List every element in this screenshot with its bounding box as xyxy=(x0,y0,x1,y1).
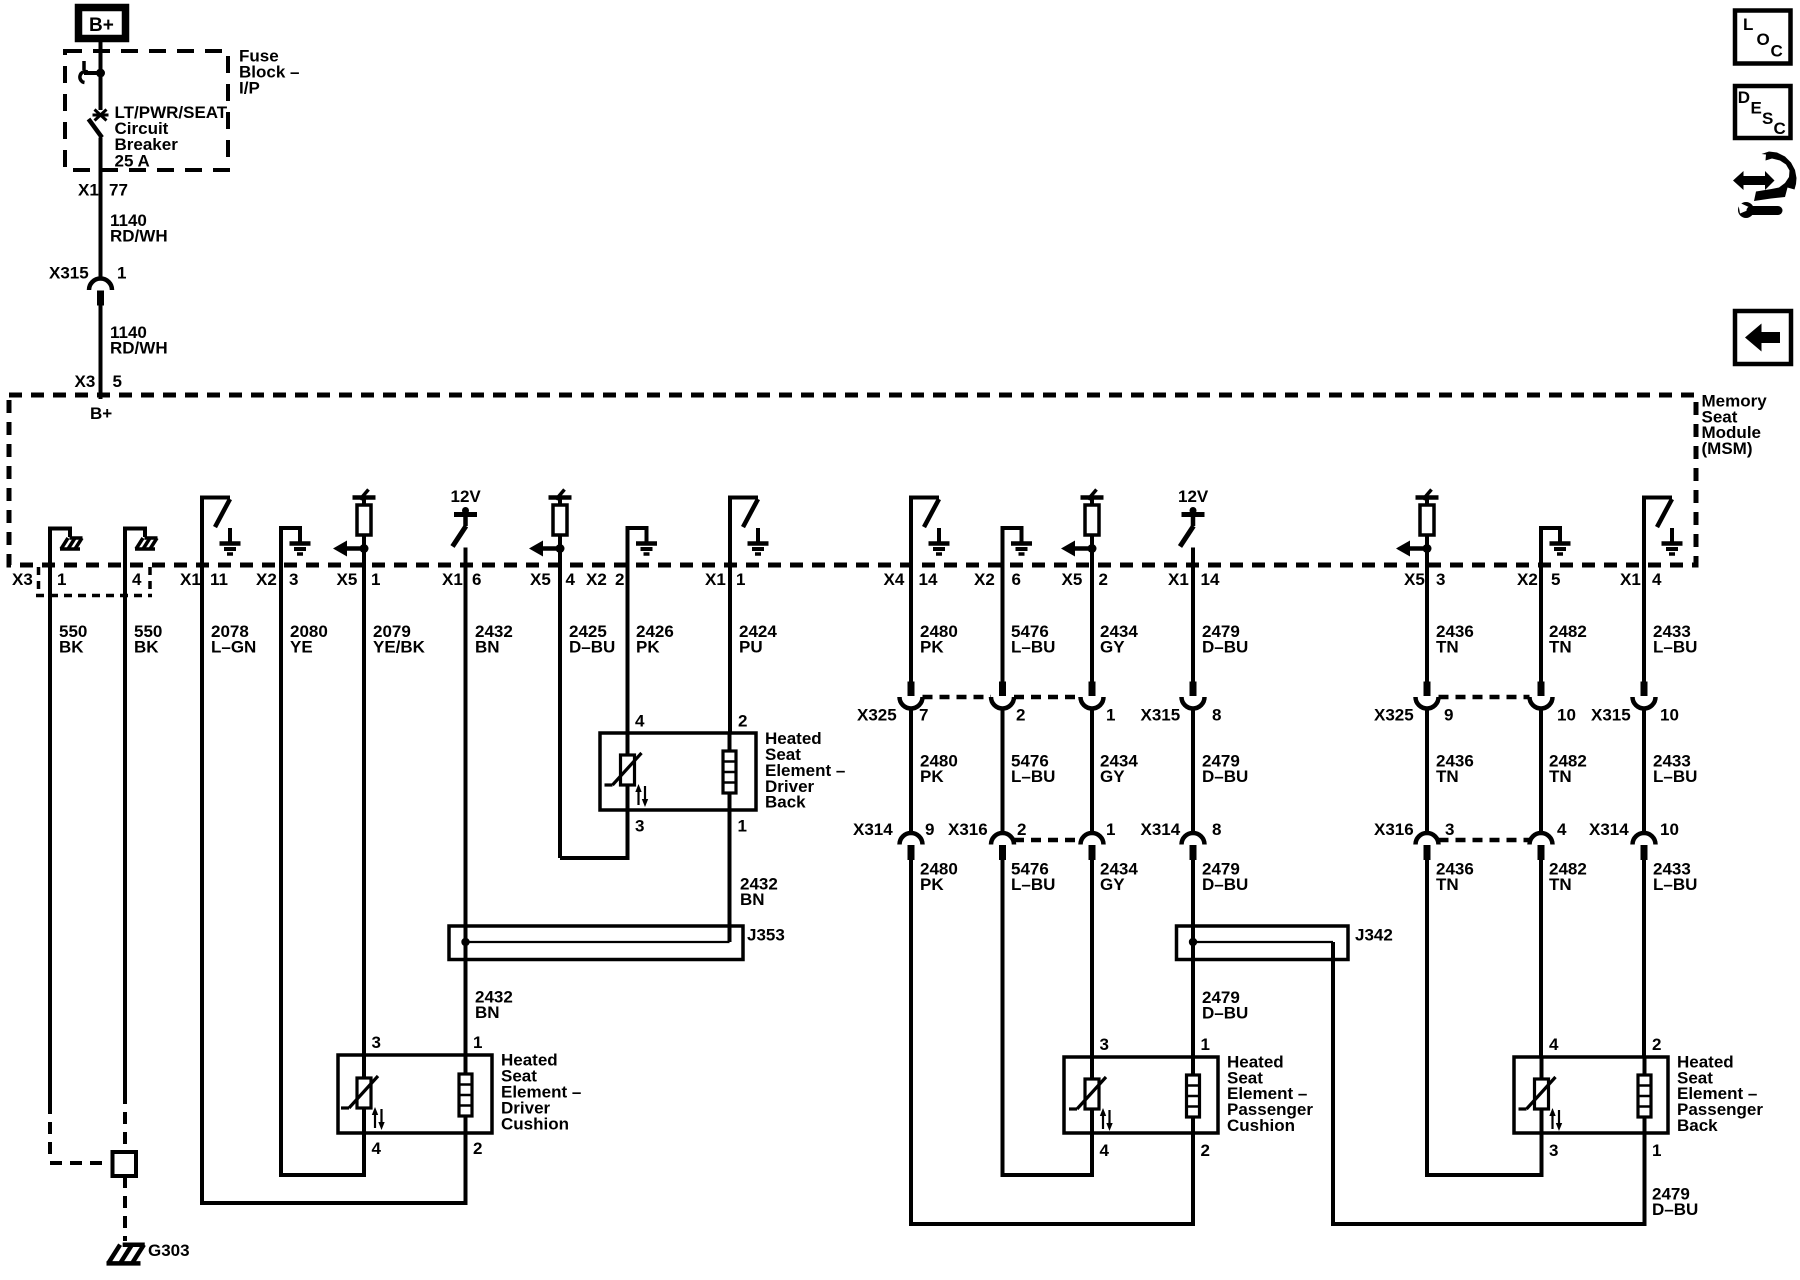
MSM internal switch to ground (X1 pin 1) xyxy=(728,498,769,568)
wire 550 BK (X3-1) xyxy=(50,565,110,1163)
svg-text:X314: X314 xyxy=(853,820,893,839)
svg-text:3: 3 xyxy=(289,570,298,589)
wire 2078 L-GN (X1-11) xyxy=(202,565,466,1203)
inline connector X315 pin 1 xyxy=(49,264,126,306)
svg-text:C: C xyxy=(1774,119,1786,138)
svg-text:X2: X2 xyxy=(586,570,607,589)
svg-text:X2: X2 xyxy=(1517,570,1538,589)
svg-text:6: 6 xyxy=(472,570,481,589)
svg-text:L–BU: L–BU xyxy=(1653,875,1697,894)
svg-text:X316: X316 xyxy=(948,820,988,839)
svg-text:J353: J353 xyxy=(747,925,785,944)
svg-text:L–GN: L–GN xyxy=(211,638,256,657)
wire 1140 RD/WH (lower) xyxy=(101,305,168,399)
svg-text:10: 10 xyxy=(1660,705,1679,724)
svg-text:D–BU: D–BU xyxy=(569,638,615,657)
svg-text:2: 2 xyxy=(1652,1035,1661,1054)
fuse block I/P dashed box xyxy=(65,46,299,170)
MSM internal switch to ground (X1 pin 4) xyxy=(1642,498,1683,568)
svg-text:L–BU: L–BU xyxy=(1011,638,1055,657)
svg-text:D: D xyxy=(1738,88,1750,107)
svg-text:3: 3 xyxy=(372,1033,381,1052)
wire 2482 TN (X2-5) upper xyxy=(1541,565,1587,683)
wire 2480 PK (X4-14) upper xyxy=(911,565,958,683)
wire 2480 PK lower xyxy=(911,859,1193,1224)
wire 2424 PU (X1-1) xyxy=(730,565,777,733)
MSM internal 12V switch (X1 pin 14) xyxy=(1178,487,1209,567)
svg-text:X2: X2 xyxy=(974,570,995,589)
svg-text:L–BU: L–BU xyxy=(1653,767,1697,786)
svg-text:X1: X1 xyxy=(78,181,99,200)
svg-text:3: 3 xyxy=(1436,570,1445,589)
inline connector X316 pin 1 xyxy=(1081,820,1116,860)
pin X3 5 labels xyxy=(75,372,122,391)
connector body dash X316 b xyxy=(1439,838,1530,843)
LOC icon xyxy=(1735,11,1791,64)
MSM internal switch to ground (X1 pin 11) xyxy=(200,498,241,568)
wire 2479 D-BU splice to passenger cushion xyxy=(1193,960,1248,1058)
svg-text:5: 5 xyxy=(113,372,122,391)
svg-text:10: 10 xyxy=(1660,820,1679,839)
svg-text:Cushion: Cushion xyxy=(501,1114,569,1133)
wire 5476 L-BU lower xyxy=(1003,859,1093,1175)
MSM internal ground (X2 pin 5) xyxy=(1541,528,1571,567)
wire driver cushion pin 4 stub xyxy=(362,1133,366,1177)
wire 2432 BN splice to driver back xyxy=(730,810,778,926)
svg-text:4: 4 xyxy=(1100,1141,1110,1160)
inline connector X316 pin 2 xyxy=(948,820,1026,860)
svg-text:PK: PK xyxy=(920,638,944,657)
heated seat element passenger cushion box xyxy=(1064,1052,1313,1135)
inline connector X325 pin 1 xyxy=(1081,682,1116,725)
svg-text:X1: X1 xyxy=(1168,570,1189,589)
svg-text:2: 2 xyxy=(615,570,624,589)
wire 2479 D-BU mid xyxy=(1193,709,1248,835)
inline connector X316 pin 4 xyxy=(1530,820,1568,860)
wire passenger cushion pin 2 stub xyxy=(1191,1133,1195,1226)
driver back pin labels xyxy=(635,711,747,835)
svg-text:(MSM): (MSM) xyxy=(1702,439,1753,458)
wire 2433 L-BU lower xyxy=(1644,859,1697,1057)
wire 2436 TN mid xyxy=(1427,709,1474,835)
svg-text:X5: X5 xyxy=(530,570,551,589)
wire 550 BK (X3-4) xyxy=(125,565,162,1152)
MSM internal switch to ground (X4 pin 14) xyxy=(909,498,950,568)
inline connector X315 pin 8 xyxy=(1141,682,1222,725)
svg-text:2: 2 xyxy=(1099,570,1108,589)
svg-text:77: 77 xyxy=(109,181,128,200)
svg-text:TN: TN xyxy=(1549,875,1572,894)
svg-text:S: S xyxy=(1762,109,1773,128)
svg-text:X5: X5 xyxy=(337,570,358,589)
connector body dash X325 b xyxy=(1014,695,1081,700)
battery terminal B+ xyxy=(79,8,126,39)
inline connector X325 pin 2 xyxy=(991,682,1025,725)
wire 2432 BN splice to driver cushion xyxy=(466,960,513,1056)
svg-text:D–BU: D–BU xyxy=(1202,767,1248,786)
svg-text:L–BU: L–BU xyxy=(1011,875,1055,894)
MSM pin labels xyxy=(12,570,1662,589)
svg-text:B+: B+ xyxy=(89,15,114,36)
label Memory Seat Module (MSM) xyxy=(1702,391,1768,458)
splice box on 550 BK xyxy=(113,1152,137,1176)
svg-text:TN: TN xyxy=(1436,875,1459,894)
svg-text:4: 4 xyxy=(566,570,576,589)
splice pack J353 xyxy=(449,925,785,959)
svg-text:BN: BN xyxy=(475,638,500,657)
svg-text:X3: X3 xyxy=(12,570,33,589)
svg-text:YE: YE xyxy=(290,638,313,657)
svg-text:TN: TN xyxy=(1549,767,1572,786)
pin X1 77 labels xyxy=(78,181,128,200)
MSM internal sensor pull-up (X5 pin 3) xyxy=(1396,490,1439,568)
wire 2436 TN lower xyxy=(1427,859,1542,1175)
svg-text:G303: G303 xyxy=(148,1241,190,1260)
passenger back pin labels xyxy=(1549,1035,1661,1160)
inline connector X314 pin 9 xyxy=(853,820,934,860)
svg-text:1: 1 xyxy=(57,570,66,589)
MSM internal ground (X2 pin 6) xyxy=(1003,528,1033,567)
wire 2434 GY lower xyxy=(1092,859,1138,1057)
svg-text:X1: X1 xyxy=(180,570,201,589)
svg-text:8: 8 xyxy=(1212,820,1221,839)
heater element (passenger cushion) xyxy=(1187,1057,1200,1133)
svg-text:J342: J342 xyxy=(1355,925,1393,944)
inline connector X316 pin 3 xyxy=(1374,820,1454,860)
svg-text:4: 4 xyxy=(1652,570,1662,589)
ground G303 xyxy=(107,1241,190,1263)
svg-text:2: 2 xyxy=(1017,820,1026,839)
svg-text:3: 3 xyxy=(1100,1035,1109,1054)
svg-text:X4: X4 xyxy=(884,570,905,589)
svg-text:4: 4 xyxy=(1549,1035,1559,1054)
wire passenger cushion pin 4 stub xyxy=(1090,1133,1094,1177)
svg-text:2: 2 xyxy=(738,711,747,730)
MSM internal sensor pull-up (X5 pin 1) xyxy=(333,490,376,568)
svg-text:O: O xyxy=(1757,30,1770,49)
svg-text:X1: X1 xyxy=(1620,570,1641,589)
svg-text:12V: 12V xyxy=(451,487,482,506)
svg-text:2: 2 xyxy=(1016,705,1025,724)
svg-text:Cushion: Cushion xyxy=(1227,1116,1295,1135)
svg-text:I/P: I/P xyxy=(239,78,260,97)
svg-text:5: 5 xyxy=(1551,570,1560,589)
svg-text:D–BU: D–BU xyxy=(1202,875,1248,894)
wire 2482 TN mid xyxy=(1541,709,1587,835)
wire 1140 RD/WH (upper) xyxy=(101,138,168,281)
svg-text:9: 9 xyxy=(925,820,934,839)
svg-text:E: E xyxy=(1751,99,1762,118)
heater element (passenger back) xyxy=(1638,1057,1651,1133)
svg-text:TN: TN xyxy=(1436,638,1459,657)
node B+ inside MSM xyxy=(90,404,112,423)
svg-text:1: 1 xyxy=(1106,705,1115,724)
inline connector X315 pin 10 xyxy=(1591,682,1679,725)
thermistor (passenger back) xyxy=(1519,1057,1563,1133)
svg-text:4: 4 xyxy=(372,1139,382,1158)
svg-text:BN: BN xyxy=(475,1003,500,1022)
svg-text:X315: X315 xyxy=(49,264,89,283)
svg-text:X5: X5 xyxy=(1062,570,1083,589)
svg-text:X1: X1 xyxy=(705,570,726,589)
inline connector X314 pin 8 xyxy=(1141,820,1222,860)
svg-text:BK: BK xyxy=(134,638,159,657)
svg-text:GY: GY xyxy=(1100,875,1125,894)
svg-text:14: 14 xyxy=(919,570,938,589)
svg-text:YE/BK: YE/BK xyxy=(373,638,426,657)
wire 2479 D-BU splice to passenger back xyxy=(1333,960,1698,1225)
svg-text:12V: 12V xyxy=(1178,487,1209,506)
MSM internal sensor pull-up (X5 pin 4) xyxy=(529,490,572,568)
X3 connector dashed pocket xyxy=(36,567,152,596)
heater element (driver back) xyxy=(723,733,736,810)
svg-text:PU: PU xyxy=(739,638,763,657)
wire from B+ into fuse block xyxy=(99,39,103,73)
svg-text:11: 11 xyxy=(210,570,228,589)
wire 2426 PK (X2-2) xyxy=(628,565,674,733)
inline connector X325 pin 7 xyxy=(857,682,928,725)
svg-text:D–BU: D–BU xyxy=(1202,1004,1248,1023)
svg-text:1: 1 xyxy=(1652,1141,1661,1160)
inline connector X325 pin 9 xyxy=(1374,682,1453,725)
svg-text:3: 3 xyxy=(635,816,644,835)
svg-text:L–BU: L–BU xyxy=(1653,638,1697,657)
svg-text:4: 4 xyxy=(635,711,645,730)
svg-text:GY: GY xyxy=(1100,767,1125,786)
MSM internal ground (X3 pin 1) xyxy=(50,529,83,568)
svg-text:6: 6 xyxy=(1012,570,1021,589)
thermistor (passenger cushion) xyxy=(1069,1057,1113,1133)
thermistor (driver back) xyxy=(605,733,649,810)
svg-text:D–BU: D–BU xyxy=(1652,1200,1698,1219)
inline connector X325 pin 10 xyxy=(1530,682,1576,725)
passenger cushion pin labels xyxy=(1100,1035,1210,1160)
wire 2432 BN (X1-6) xyxy=(466,565,513,926)
svg-text:Back: Back xyxy=(765,793,806,812)
svg-text:1: 1 xyxy=(371,570,380,589)
svg-text:2: 2 xyxy=(473,1139,482,1158)
diagram navigation icon xyxy=(1733,152,1797,219)
svg-text:1: 1 xyxy=(473,1033,482,1052)
wire 2433 L-BU mid xyxy=(1644,709,1697,835)
wire 2482 TN lower xyxy=(1541,859,1587,1057)
driver cushion pin labels xyxy=(372,1033,483,1158)
svg-text:BK: BK xyxy=(59,638,84,657)
wire 2433 L-BU (X1-4) upper xyxy=(1644,565,1697,683)
MSM internal ground (X2 pin 2) xyxy=(628,528,658,567)
wire driver cushion pin 2 stub xyxy=(464,1133,468,1205)
svg-text:X325: X325 xyxy=(1374,705,1414,724)
wire 2436 TN (X5-3) upper xyxy=(1427,565,1474,683)
connector body dash X325 c xyxy=(1439,695,1530,700)
svg-text:1: 1 xyxy=(738,816,747,835)
svg-text:BN: BN xyxy=(740,890,765,909)
svg-text:D–BU: D–BU xyxy=(1202,638,1248,657)
wire 2079 YE/BK (X5-1) xyxy=(364,565,426,1055)
svg-text:RD/WH: RD/WH xyxy=(110,227,168,246)
svg-text:9: 9 xyxy=(1444,705,1453,724)
wire 2480 PK mid xyxy=(911,709,958,835)
wire 2434 GY (X5-2) upper xyxy=(1092,565,1138,683)
MSM internal ground (X2 pin 3) xyxy=(281,528,311,567)
svg-text:B+: B+ xyxy=(90,404,112,423)
DESC icon xyxy=(1735,86,1791,138)
svg-text:2: 2 xyxy=(1201,1141,1210,1160)
svg-text:3: 3 xyxy=(1549,1141,1558,1160)
wire 2434 GY mid xyxy=(1092,709,1138,835)
heater element (driver cushion) xyxy=(459,1055,472,1133)
svg-text:X314: X314 xyxy=(1141,820,1181,839)
svg-text:X315: X315 xyxy=(1141,705,1181,724)
svg-text:X3: X3 xyxy=(75,372,96,391)
wire 5476 L-BU mid xyxy=(1003,709,1056,835)
circuit breaker LT/PWR/SEAT 25 A xyxy=(80,61,228,170)
Memory Seat Module (MSM) dashed box xyxy=(9,395,1696,565)
thermistor (driver cushion) xyxy=(341,1055,385,1133)
heated seat element driver cushion box xyxy=(338,1051,581,1134)
MSM internal ground (X3 pin 4) xyxy=(125,529,158,568)
svg-text:3: 3 xyxy=(1445,820,1454,839)
svg-text:10: 10 xyxy=(1557,705,1576,724)
svg-text:14: 14 xyxy=(1201,570,1220,589)
splice pack J342 xyxy=(1177,925,1393,959)
dashed wire to G303 xyxy=(123,1176,127,1241)
svg-text:PK: PK xyxy=(920,875,944,894)
connector body dash X316 xyxy=(1014,838,1081,843)
svg-text:X314: X314 xyxy=(1589,820,1629,839)
connector body dash X325 xyxy=(923,695,992,700)
wire 2080 YE (X2-3) xyxy=(281,565,364,1175)
svg-text:L: L xyxy=(1743,15,1753,34)
svg-text:X1: X1 xyxy=(442,570,463,589)
heated seat element driver back box xyxy=(600,729,845,812)
svg-text:Back: Back xyxy=(1677,1116,1718,1135)
svg-text:PK: PK xyxy=(920,767,944,786)
MSM internal sensor pull-up (X5 pin 2) xyxy=(1061,490,1104,568)
svg-text:TN: TN xyxy=(1549,638,1572,657)
svg-text:X2: X2 xyxy=(256,570,277,589)
svg-text:GY: GY xyxy=(1100,638,1125,657)
wire 2479 D-BU (X1-14) upper xyxy=(1193,565,1248,683)
svg-text:X316: X316 xyxy=(1374,820,1414,839)
wire 2425 D-BU to driver back pin 3 xyxy=(560,810,628,858)
wire 2479 D-BU lower xyxy=(1193,859,1248,926)
inline connector X314 pin 10 xyxy=(1589,820,1679,860)
back arrow icon xyxy=(1735,311,1791,364)
svg-text:X315: X315 xyxy=(1591,705,1631,724)
svg-text:25 A: 25 A xyxy=(115,151,150,170)
svg-text:PK: PK xyxy=(636,638,660,657)
svg-text:1: 1 xyxy=(1201,1035,1210,1054)
svg-text:7: 7 xyxy=(919,705,928,724)
svg-text:X5: X5 xyxy=(1404,570,1425,589)
wire 5476 L-BU (X2-6) upper xyxy=(1003,565,1056,683)
svg-text:L–BU: L–BU xyxy=(1011,767,1055,786)
svg-text:RD/WH: RD/WH xyxy=(110,339,168,358)
svg-text:X325: X325 xyxy=(857,705,897,724)
svg-text:1: 1 xyxy=(736,570,745,589)
heated seat element passenger back box xyxy=(1514,1052,1763,1135)
MSM internal 12V switch (X1 pin 6) xyxy=(451,487,482,567)
wire passenger back pin 3 stub xyxy=(1540,1133,1544,1177)
svg-text:C: C xyxy=(1771,41,1783,60)
svg-text:1: 1 xyxy=(117,264,126,283)
svg-text:1: 1 xyxy=(1106,820,1115,839)
svg-text:4: 4 xyxy=(1557,820,1567,839)
wire 2425 D-BU (X5-4) xyxy=(560,565,615,858)
svg-text:8: 8 xyxy=(1212,705,1221,724)
svg-text:TN: TN xyxy=(1436,767,1459,786)
svg-text:4: 4 xyxy=(132,570,142,589)
